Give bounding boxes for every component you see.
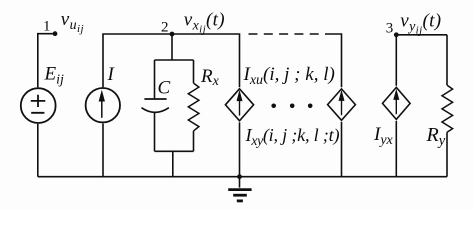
svg-text:Iyx: Iyx <box>373 124 394 148</box>
wire Rx upper lead <box>193 60 195 83</box>
wire diamond3 bottom stem <box>395 121 397 177</box>
svg-text:Ixu(i, j ; k, l): Ixu(i, j ; k, l) <box>243 64 335 88</box>
svg-text:C: C <box>158 78 171 99</box>
wire Ry upper lead <box>446 35 448 85</box>
wire node2 stem <box>171 34 173 60</box>
node 1 junction dot <box>53 31 58 36</box>
wire C-Rx box top bar <box>155 59 194 61</box>
svg-text:2: 2 <box>161 20 169 36</box>
capacitor C plates <box>142 99 169 112</box>
wire C-Rx box bottom bar <box>155 150 194 152</box>
wire diamond1 bottom stem <box>239 122 241 176</box>
wire bottom rail <box>38 176 447 178</box>
svg-text:vyij(t): vyij(t) <box>400 11 441 37</box>
node 3 junction dot <box>394 32 399 37</box>
svg-text:3: 3 <box>386 21 394 37</box>
current source I <box>86 88 120 122</box>
svg-text:vxij(t): vxij(t) <box>184 10 225 36</box>
wire node1 to E top <box>38 34 55 88</box>
wire top rail node2 <box>103 34 240 87</box>
svg-text:Eij: Eij <box>44 64 64 88</box>
svg-text:Ry: Ry <box>426 124 446 149</box>
wire Ry lower lead <box>446 132 448 176</box>
controlled source diamond I_yx <box>383 87 411 119</box>
wire Rx lower lead <box>193 131 195 151</box>
wire C upper lead <box>154 60 156 99</box>
voltage source E_ij <box>21 88 56 123</box>
wire I bottom <box>102 123 104 176</box>
resistor Rx <box>188 83 199 131</box>
svg-text:I: I <box>107 64 116 85</box>
wire E bottom to rail <box>37 124 39 177</box>
wire box bottom stem <box>172 151 174 176</box>
wire dashed line <box>249 33 335 35</box>
node 2 junction dot <box>170 32 175 37</box>
wire diamond2 bottom stem <box>341 122 343 177</box>
svg-text:Rx: Rx <box>200 66 220 89</box>
controlled source diamond 2 <box>328 89 356 120</box>
ellipsis dots <box>271 104 312 109</box>
wire C lower lead <box>154 112 156 151</box>
ground <box>228 177 251 201</box>
svg-text:1: 1 <box>43 19 51 35</box>
wire corner to diamond2 <box>334 34 342 87</box>
svg-text:vuij: vuij <box>61 9 84 35</box>
resistor Ry <box>442 85 453 132</box>
svg-text:Ixy(i, j ;k, l ;t): Ixy(i, j ;k, l ;t) <box>245 125 340 148</box>
wire node3 rail <box>396 34 447 36</box>
controlled source diamond I_xu/I_xy <box>225 89 253 121</box>
ground junction dot <box>237 174 242 179</box>
wire diamond3 top stem <box>395 35 397 86</box>
